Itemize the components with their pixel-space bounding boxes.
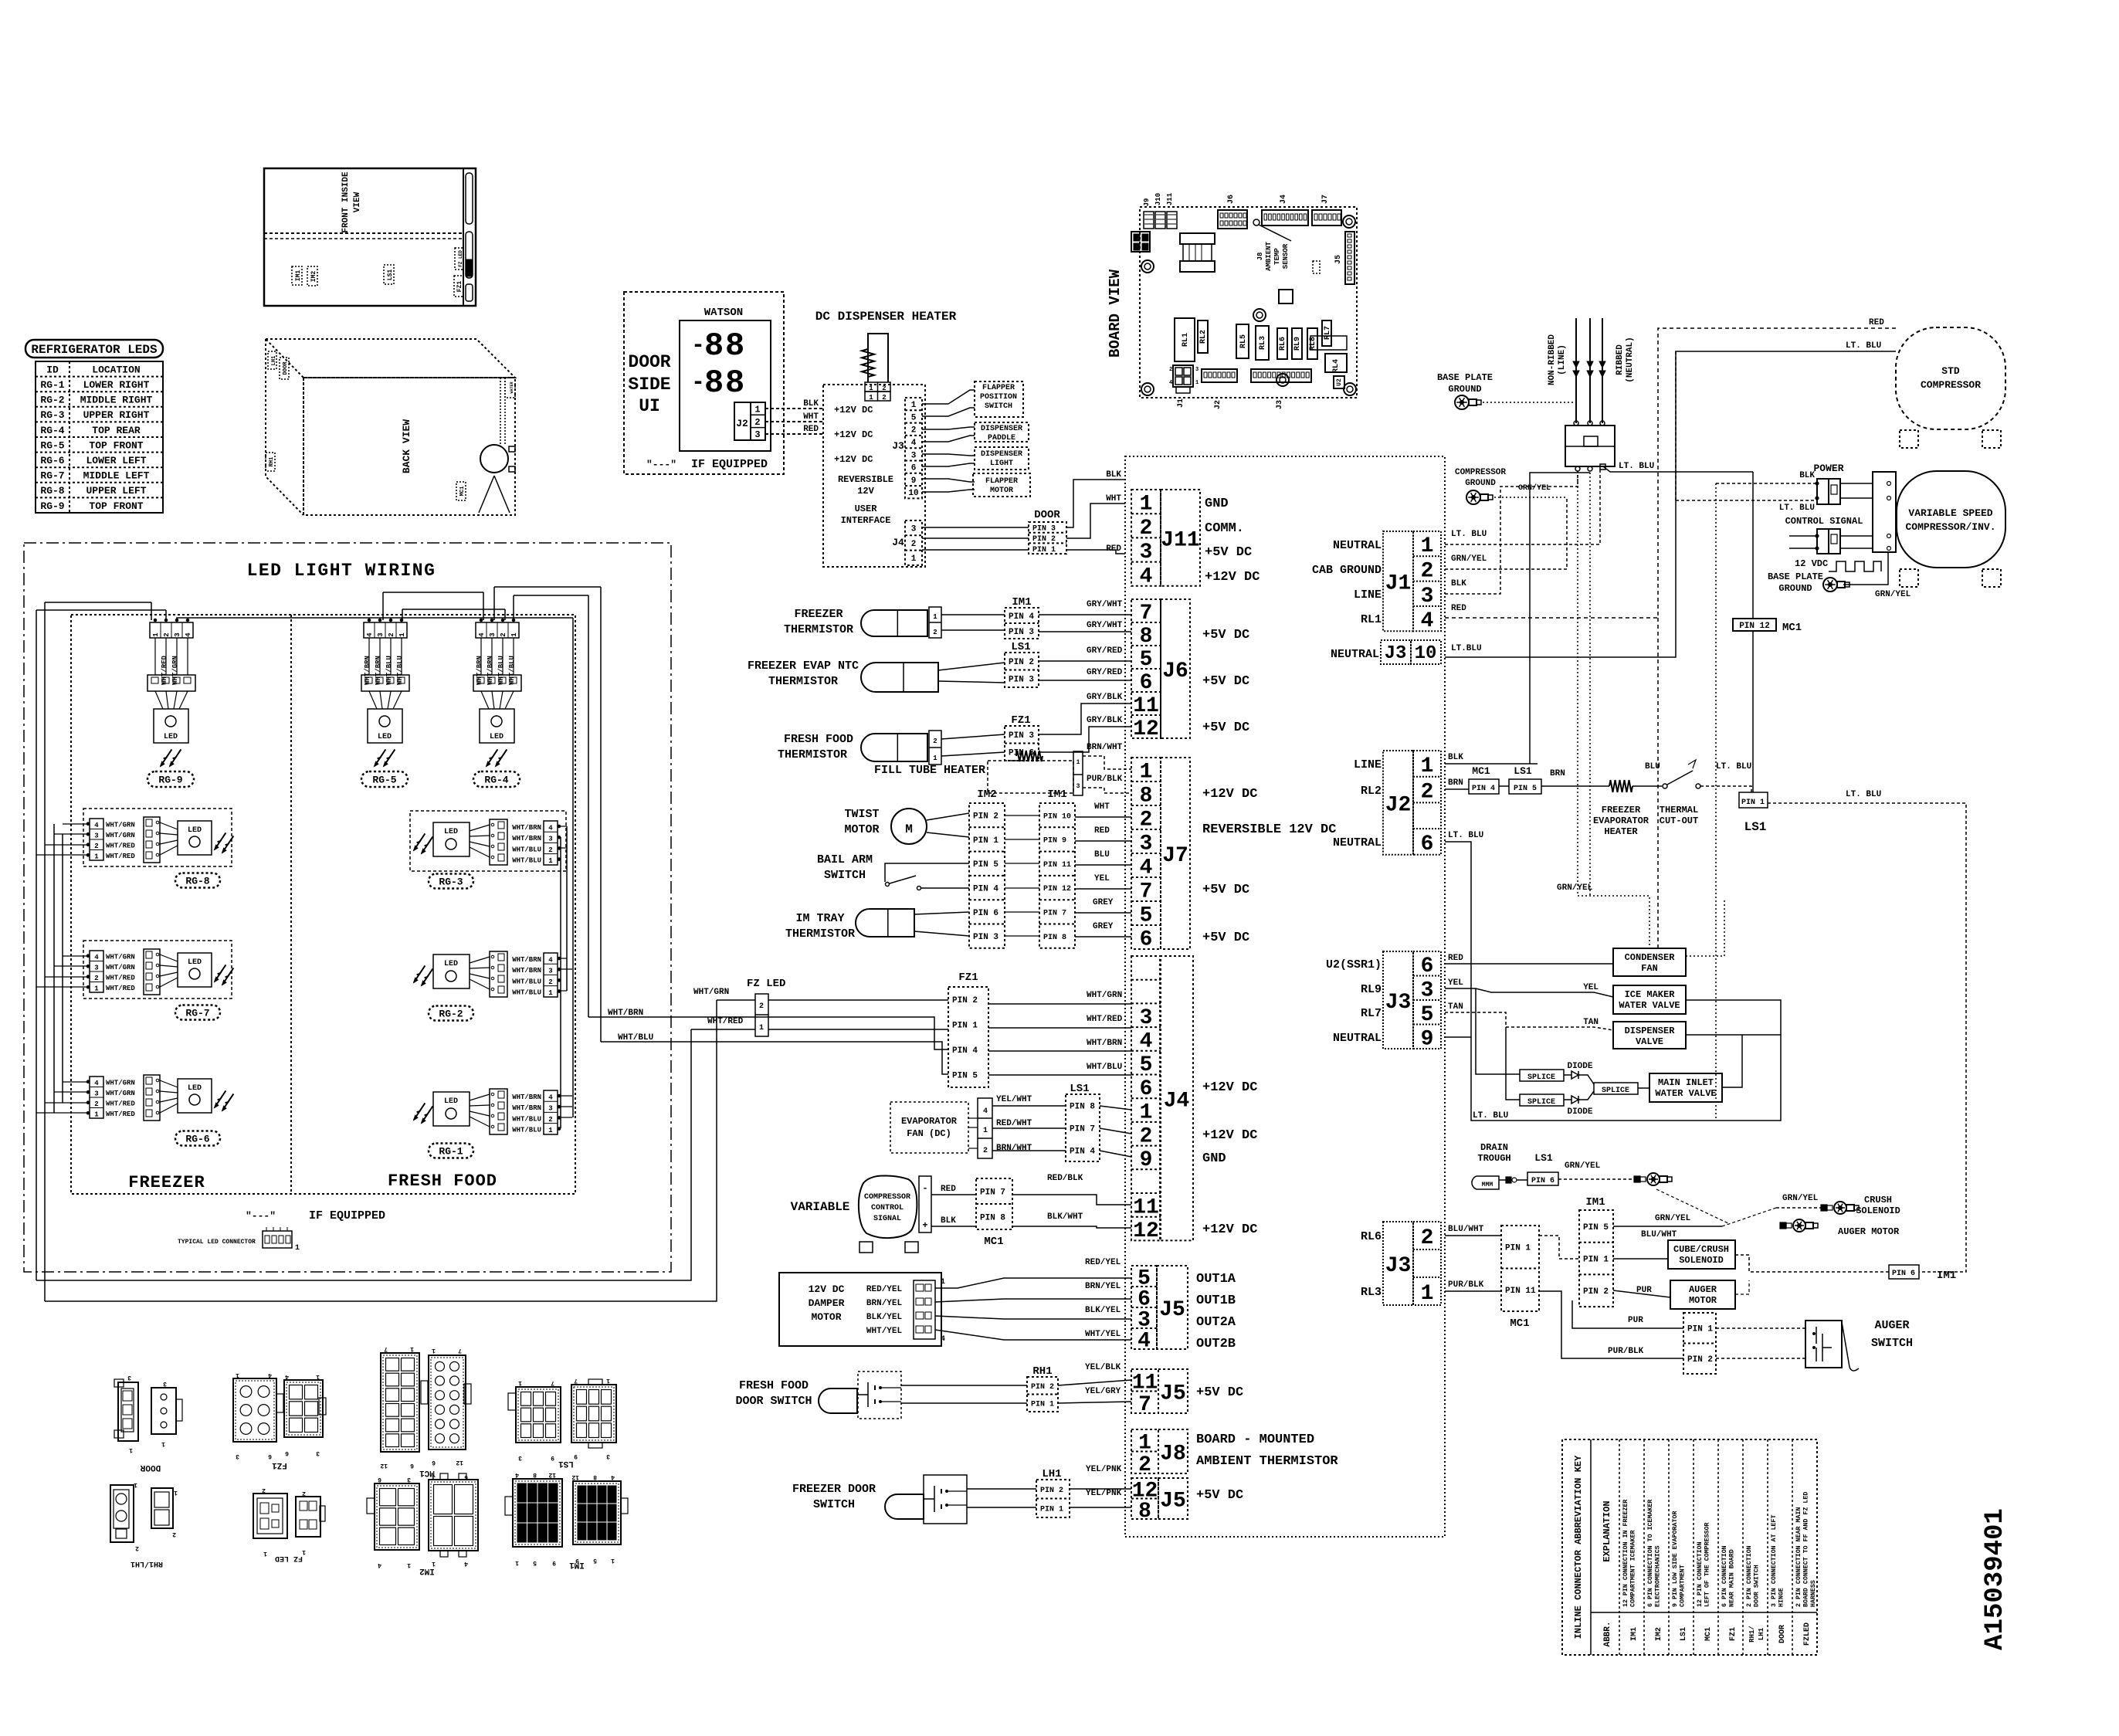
svg-text:LS1: LS1 — [558, 1459, 574, 1468]
LED module RG-1 tag — [429, 1144, 473, 1158]
LED module RG-2 lightning — [414, 974, 419, 982]
svg-text:1: 1 — [1421, 754, 1434, 778]
svg-text:BRN: BRN — [1448, 778, 1463, 788]
svg-text:SIDE: SIDE — [628, 375, 670, 395]
svg-text:IM2: IM2 — [977, 788, 996, 801]
svg-text:GRN/YEL: GRN/YEL — [1451, 554, 1487, 564]
svg-text:2: 2 — [933, 737, 937, 745]
svg-text:2: 2 — [302, 1490, 306, 1497]
12V DC damper motor — [779, 1273, 941, 1346]
svg-text:10: 10 — [908, 489, 918, 498]
freezer evaporator heater — [1609, 780, 1632, 792]
svg-text:IM TRAY: IM TRAY — [795, 912, 844, 925]
svg-text:1: 1 — [94, 985, 99, 993]
svg-text:1: 1 — [134, 1481, 137, 1488]
svg-text:CUT-OUT: CUT-OUT — [1660, 815, 1698, 826]
svg-text:RED/YEL: RED/YEL — [1085, 1258, 1121, 1267]
connector J6 — [1131, 599, 1161, 738]
svg-text:FZ1: FZ1 — [958, 971, 978, 984]
svg-text:LEFT OF THE COMPRESSOR: LEFT OF THE COMPRESSOR — [1704, 1522, 1711, 1607]
svg-text:WHT/BLU: WHT/BLU — [512, 978, 541, 985]
connector tag MC1 back view — [456, 482, 466, 500]
svg-text:PIN 1: PIN 1 — [1583, 1256, 1609, 1265]
flapper position switch — [975, 381, 1023, 417]
svg-text:MC1: MC1 — [1704, 1627, 1713, 1641]
wires FZ LED to FZ1 — [768, 999, 948, 1001]
IC U chip — [1279, 290, 1293, 303]
svg-text:J7: J7 — [1162, 844, 1188, 868]
svg-text:LED: LED — [378, 733, 392, 741]
svg-text:WHT/RED: WHT/RED — [106, 1100, 135, 1108]
svg-text:1: 1 — [911, 401, 917, 410]
svg-text:RG-1: RG-1 — [40, 379, 64, 391]
svg-text:J3: J3 — [1385, 991, 1412, 1015]
svg-text:LS1: LS1 — [1070, 1083, 1089, 1095]
svg-text:PIN 4: PIN 4 — [973, 885, 998, 894]
connector J3 SSR — [1413, 951, 1441, 1049]
svg-text:RH1: RH1 — [269, 457, 275, 467]
svg-text:YEL/GRY: YEL/GRY — [1085, 1387, 1121, 1396]
svg-text:COMPRESSOR: COMPRESSOR — [864, 1193, 910, 1202]
svg-text:FAN (DC): FAN (DC) — [907, 1128, 951, 1139]
svg-text:SOLENOID: SOLENOID — [1679, 1255, 1724, 1266]
connector face FZ LED — [253, 1494, 287, 1538]
svg-text:A15039401: A15039401 — [1981, 1508, 2010, 1650]
svg-text:M: M — [905, 822, 913, 836]
connector tag IM2 front view — [307, 266, 317, 286]
svg-text:J10: J10 — [1154, 193, 1162, 205]
svg-text:VARIABLE SPEED: VARIABLE SPEED — [1908, 507, 1992, 519]
svg-text:WHT/RED: WHT/RED — [106, 1110, 135, 1118]
svg-text:UPPER LEFT: UPPER LEFT — [86, 485, 146, 497]
svg-text:-: - — [922, 1183, 927, 1194]
relay RL1 — [1175, 318, 1195, 361]
svg-text:8: 8 — [704, 327, 724, 364]
svg-text:1: 1 — [161, 1440, 165, 1447]
svg-text:2: 2 — [759, 1002, 764, 1011]
svg-text:6: 6 — [268, 1453, 272, 1460]
svg-text:RH1/LH1: RH1/LH1 — [131, 1559, 163, 1568]
svg-text:WHT/BRN: WHT/BRN — [512, 967, 541, 975]
component U2 — [1334, 376, 1344, 388]
svg-text:SWITCH: SWITCH — [985, 402, 1012, 411]
svg-text:BLU/WHT: BLU/WHT — [1641, 1230, 1677, 1239]
svg-text:LED: LED — [188, 1084, 202, 1093]
svg-text:WHT/BRN: WHT/BRN — [1087, 1039, 1122, 1048]
svg-text:PIN 4: PIN 4 — [1009, 612, 1034, 622]
svg-text:COMPARTMENT ICEMAKER: COMPARTMENT ICEMAKER — [1630, 1530, 1637, 1607]
svg-text:PIN 2: PIN 2 — [1031, 1383, 1054, 1392]
svg-text:12: 12 — [380, 1462, 388, 1469]
svg-text:GRY/BLK: GRY/BLK — [1087, 716, 1123, 725]
svg-text:6: 6 — [410, 1462, 414, 1469]
svg-text:1: 1 — [316, 1373, 320, 1380]
svg-text:LOWER LEFT: LOWER LEFT — [86, 455, 146, 466]
svg-text:BAIL ARM: BAIL ARM — [817, 853, 873, 866]
svg-text:+12V DC: +12V DC — [834, 405, 873, 415]
svg-text:WHT/YEL: WHT/YEL — [1085, 1330, 1121, 1339]
svg-text:PIN 6: PIN 6 — [1531, 1177, 1554, 1185]
wire dashed down to condenser fan — [1657, 618, 1659, 948]
svg-text:1: 1 — [432, 1347, 436, 1354]
svg-text:POWER: POWER — [1813, 463, 1843, 474]
svg-text:LT. BLU: LT. BLU — [1619, 462, 1654, 471]
svg-text:WHT/GRN: WHT/GRN — [106, 1080, 135, 1087]
svg-text:DIODE: DIODE — [1567, 1062, 1592, 1071]
svg-text:J6: J6 — [1227, 195, 1236, 204]
svg-text:IF EQUIPPED: IF EQUIPPED — [691, 458, 768, 471]
flapper motor — [973, 473, 1030, 497]
svg-text:WATSON: WATSON — [704, 307, 743, 319]
connector tag DOOR back view — [280, 358, 289, 379]
diode 1 — [1564, 1074, 1571, 1076]
svg-text:RIBBED: RIBBED — [1616, 344, 1625, 375]
svg-text:PIN 5: PIN 5 — [973, 860, 998, 870]
connector J3 lower — [1413, 1222, 1441, 1305]
refrigerator LEDs table — [36, 361, 163, 513]
auger switch pins — [1683, 1313, 1716, 1374]
LED module RG-2 mid connector — [490, 951, 507, 997]
connector face IM2 — [375, 1483, 419, 1550]
svg-text:UI: UI — [639, 396, 660, 416]
svg-text:4: 4 — [464, 1560, 468, 1567]
svg-text:WHT: WHT — [803, 412, 819, 422]
svg-text:J5: J5 — [1334, 255, 1343, 264]
svg-text:PIN 1: PIN 1 — [1040, 1505, 1063, 1514]
svg-text:NEUTRAL: NEUTRAL — [1333, 539, 1382, 552]
svg-text:3: 3 — [236, 1453, 239, 1460]
svg-text:4: 4 — [1169, 380, 1172, 386]
LED module RG-8 tag — [175, 873, 220, 888]
svg-text:LT. BLU: LT. BLU — [1846, 790, 1881, 799]
svg-text:RG-9: RG-9 — [158, 775, 182, 786]
svg-text:TWIST: TWIST — [844, 808, 879, 821]
svg-text:RL9: RL9 — [1361, 983, 1382, 996]
dispenser paddle — [975, 422, 1029, 442]
svg-text:5: 5 — [593, 1557, 597, 1564]
svg-text:PIN 7: PIN 7 — [1043, 909, 1066, 917]
svg-text:3: 3 — [94, 1090, 98, 1098]
svg-text:+5V DC: +5V DC — [1202, 628, 1249, 643]
svg-text:WHT/BRN: WHT/BRN — [512, 956, 541, 964]
svg-text:PIN 1: PIN 1 — [1032, 546, 1056, 554]
svg-text:BLK: BLK — [803, 399, 819, 409]
svg-text:BLK: BLK — [1799, 471, 1815, 480]
svg-text:4: 4 — [548, 957, 553, 965]
svg-text:1: 1 — [911, 554, 917, 564]
svg-text:GRY/RED: GRY/RED — [1087, 668, 1123, 677]
relay RL4 — [1325, 354, 1347, 372]
LED module RG-3 lightning — [414, 842, 419, 850]
svg-text:FREEZER: FREEZER — [1602, 805, 1641, 815]
svg-text:1: 1 — [410, 1345, 414, 1352]
svg-text:6 PIN CONNECTION TO ICEMAKER: 6 PIN CONNECTION TO ICEMAKER — [1647, 1500, 1654, 1607]
svg-text:WHT/YEL: WHT/YEL — [866, 1327, 903, 1336]
svg-text:LED: LED — [444, 960, 458, 968]
svg-text:1: 1 — [933, 613, 937, 621]
svg-text:GRN/YEL: GRN/YEL — [1557, 883, 1593, 893]
svg-text:9: 9 — [574, 1453, 578, 1460]
svg-text:4: 4 — [1137, 1330, 1151, 1354]
svg-text:RG-1: RG-1 — [439, 1146, 463, 1158]
svg-text:IM2: IM2 — [419, 1566, 435, 1575]
connector J2 door UI — [734, 402, 765, 440]
connector face LS1 — [516, 1387, 561, 1443]
diode 2 — [1564, 1099, 1571, 1100]
svg-text:1: 1 — [398, 632, 406, 637]
svg-text:LT. BLU: LT. BLU — [1448, 831, 1483, 840]
connector tag WATER VALVE back view — [505, 378, 515, 398]
svg-text:J4: J4 — [1164, 1089, 1190, 1113]
dispenser light — [975, 447, 1029, 470]
svg-text:3: 3 — [911, 451, 917, 460]
svg-text:LS1: LS1 — [1680, 1627, 1688, 1641]
svg-text:BLU: BLU — [1094, 850, 1110, 860]
svg-text:COMPRESSOR: COMPRESSOR — [1455, 468, 1506, 477]
svg-text:WHT/RED: WHT/RED — [106, 843, 135, 850]
svg-text:1: 1 — [606, 1377, 610, 1384]
LED module RG-4 mid connector — [473, 675, 521, 691]
svg-text:RG-3: RG-3 — [40, 409, 64, 421]
svg-text:RG-4: RG-4 — [484, 775, 508, 786]
svg-text:YEL/PNK: YEL/PNK — [1086, 1489, 1122, 1498]
svg-text:BLK: BLK — [1448, 753, 1463, 762]
relay RL3 — [1256, 326, 1269, 360]
LED module RG-9 LED box — [154, 709, 188, 743]
svg-text:PIN 1: PIN 1 — [1505, 1244, 1531, 1253]
svg-text:TOP REAR: TOP REAR — [92, 425, 141, 436]
svg-text:+12V DC: +12V DC — [1202, 1080, 1257, 1095]
svg-text:2: 2 — [1140, 517, 1153, 541]
svg-text:PIN 8: PIN 8 — [1043, 934, 1066, 942]
svg-text:MIDDLE LEFT: MIDDLE LEFT — [83, 470, 150, 482]
svg-text:GND: GND — [1205, 497, 1229, 511]
svg-text:WHT/BRN: WHT/BRN — [608, 1009, 643, 1018]
svg-text:RG-2: RG-2 — [439, 1009, 463, 1020]
svg-text:PIN 2: PIN 2 — [1009, 658, 1034, 667]
svg-text:PIN 3: PIN 3 — [973, 933, 998, 942]
svg-text:RL3: RL3 — [1259, 336, 1267, 350]
svg-text:2: 2 — [548, 846, 552, 854]
svg-text:CAB GROUND: CAB GROUND — [1312, 564, 1382, 577]
wire PIN12 column — [1752, 472, 1754, 619]
svg-text:3: 3 — [127, 1374, 131, 1381]
svg-text:EVAPORATOR: EVAPORATOR — [901, 1116, 958, 1127]
svg-text:CUBE/CRUSH: CUBE/CRUSH — [1673, 1244, 1729, 1255]
svg-text:WHT/BRN: WHT/BRN — [512, 824, 541, 832]
svg-text:GND: GND — [1202, 1151, 1226, 1166]
wires LS1 to J4 — [1100, 1106, 1131, 1110]
svg-text:3: 3 — [94, 832, 98, 840]
svg-text:3: 3 — [377, 632, 385, 636]
LED module RG-1 lightning — [414, 1111, 419, 1120]
connector J1 board — [1173, 365, 1193, 387]
svg-text:OUT1A: OUT1A — [1196, 1272, 1236, 1287]
svg-text:FRESH FOOD: FRESH FOOD — [739, 1379, 809, 1392]
svg-text:ID: ID — [46, 364, 59, 375]
svg-text:DOOR: DOOR — [1778, 1625, 1787, 1643]
wire BLK to POWER — [1716, 483, 1817, 484]
wire J4 pin1 to DOOR PIN1 — [922, 549, 1029, 551]
svg-text:12V DC: 12V DC — [809, 1283, 845, 1295]
svg-text:SWITCH: SWITCH — [813, 1498, 855, 1511]
svg-text:GRN/YEL: GRN/YEL — [1875, 590, 1911, 599]
svg-text:AUGER MOTOR: AUGER MOTOR — [1838, 1226, 1900, 1237]
svg-text:2: 2 — [933, 629, 937, 636]
svg-text:2 PIN CONNECTION NEAR MAIN: 2 PIN CONNECTION NEAR MAIN — [1795, 1507, 1802, 1607]
wire J3-9 to LT.BLU bus — [1445, 1036, 1471, 1038]
svg-text:AMBIENT: AMBIENT — [1265, 242, 1273, 271]
user interface box — [823, 385, 925, 567]
LED module RG-8 lightning — [215, 841, 220, 849]
svg-text:4: 4 — [366, 632, 374, 637]
svg-text:WHT/GRN: WHT/GRN — [106, 1090, 135, 1097]
svg-text:FLAPPER: FLAPPER — [982, 384, 1015, 392]
LED module RG-1 mid connector — [490, 1089, 507, 1134]
connector tag LH1 back view — [268, 351, 276, 369]
svg-text:MOTOR: MOTOR — [844, 823, 879, 836]
svg-text:J11: J11 — [1161, 528, 1199, 552]
svg-text:YEL/BLK: YEL/BLK — [1085, 1363, 1121, 1372]
svg-text:PIN 11: PIN 11 — [1505, 1287, 1536, 1296]
svg-text:6: 6 — [464, 1473, 468, 1480]
svg-text:-: - — [691, 370, 705, 396]
svg-text:DOOR: DOOR — [628, 352, 670, 372]
svg-text:GRY/BLK: GRY/BLK — [1087, 693, 1123, 702]
LED module RG-8 mid connector — [144, 817, 160, 863]
svg-text:BOARD - MOUNTED: BOARD - MOUNTED — [1196, 1433, 1314, 1447]
splice 2 — [1520, 1094, 1564, 1106]
connector tag FZ LED front view — [455, 248, 463, 270]
LED module RG-6 LED box — [178, 1079, 212, 1113]
relay RL5 — [1236, 324, 1249, 358]
svg-text:CONTROL: CONTROL — [871, 1204, 904, 1212]
svg-text:DOOR: DOOR — [140, 1463, 161, 1472]
LED module RG-9 pin connector — [150, 622, 193, 638]
svg-text:12 PIN CONNECTION: 12 PIN CONNECTION — [1697, 1541, 1704, 1607]
svg-text:RG-6: RG-6 — [40, 455, 64, 466]
svg-text:BLK: BLK — [1451, 579, 1466, 588]
svg-text:2: 2 — [1140, 809, 1153, 832]
connector J6 board — [1218, 210, 1247, 229]
svg-text:5: 5 — [1140, 904, 1153, 928]
LED module RG-6 lightning — [215, 1099, 220, 1107]
svg-text:WHT/BRN: WHT/BRN — [512, 1104, 541, 1112]
svg-text:DC DISPENSER HEATER: DC DISPENSER HEATER — [815, 310, 957, 324]
svg-text:2: 2 — [163, 632, 171, 636]
svg-text:POSITION: POSITION — [980, 393, 1017, 402]
main control board outline — [1125, 456, 1445, 1537]
svg-text:LED: LED — [490, 733, 503, 741]
svg-text:BRN/YEL: BRN/YEL — [866, 1299, 903, 1308]
connector face IM1 — [513, 1479, 562, 1547]
svg-text:+12V DC: +12V DC — [834, 429, 873, 440]
PIN 12 MC1 inline — [1733, 619, 1776, 631]
svg-text:11: 11 — [1132, 1371, 1158, 1395]
svg-text:LED: LED — [444, 1097, 458, 1106]
svg-text:2: 2 — [983, 1147, 988, 1155]
inline LS1 PIN 1 — [1739, 792, 1768, 808]
svg-text:SENSOR: SENSOR — [1282, 243, 1290, 269]
svg-text:AUGER: AUGER — [1689, 1284, 1717, 1295]
svg-text:3: 3 — [548, 968, 552, 975]
svg-text:TROUGH: TROUGH — [1477, 1153, 1510, 1164]
svg-text:RG-9: RG-9 — [40, 500, 64, 512]
LED module RG-2 tag — [429, 1006, 473, 1021]
svg-text:3: 3 — [489, 632, 497, 636]
svg-text:4: 4 — [1140, 856, 1153, 880]
svg-text:FREEZER: FREEZER — [128, 1173, 205, 1192]
LED light wiring outer enclosure — [24, 543, 671, 1272]
svg-text:RL9: RL9 — [1293, 337, 1302, 351]
svg-text:GRN/YEL: GRN/YEL — [1655, 1214, 1691, 1223]
connector J10 board — [1155, 212, 1165, 229]
svg-text:RL2: RL2 — [1361, 785, 1382, 798]
svg-text:LINE: LINE — [1354, 758, 1382, 771]
svg-text:GREY: GREY — [1093, 922, 1114, 931]
svg-text:J3: J3 — [892, 440, 904, 452]
svg-text:WHT/GRN: WHT/GRN — [106, 822, 135, 829]
svg-text:PUR/BLK: PUR/BLK — [1608, 1347, 1644, 1356]
svg-text:PIN 5: PIN 5 — [1514, 785, 1537, 793]
svg-text:STD: STD — [1941, 365, 1960, 377]
svg-text:SPLICE: SPLICE — [1527, 1098, 1555, 1107]
svg-text:6: 6 — [1140, 928, 1153, 952]
LED module RG-2 LED box — [433, 954, 470, 988]
svg-text:PIN 6: PIN 6 — [1892, 1270, 1915, 1278]
svg-text:1: 1 — [94, 1111, 99, 1119]
wire J4 pin3 to DOOR PIN3 — [922, 527, 1029, 528]
connector J4 — [1131, 956, 1161, 1240]
connector J5 board — [1345, 232, 1354, 284]
svg-text:PIN 12: PIN 12 — [1043, 885, 1071, 893]
svg-text:LS1: LS1 — [387, 270, 394, 281]
svg-text:THERMISTOR: THERMISTOR — [778, 748, 847, 761]
svg-text:MC1: MC1 — [984, 1236, 1003, 1248]
svg-text:RG-7: RG-7 — [185, 1008, 209, 1019]
svg-text:1: 1 — [236, 1372, 239, 1378]
connector J2 main — [1413, 751, 1441, 855]
main PCB outline — [1140, 207, 1357, 398]
svg-text:WHT: WHT — [1106, 494, 1121, 504]
svg-text:DRAIN: DRAIN — [1480, 1142, 1508, 1153]
svg-text:LT.BLU: LT.BLU — [1451, 644, 1482, 653]
svg-text:RED: RED — [1451, 604, 1466, 613]
svg-text:LT. BLU: LT. BLU — [1716, 762, 1751, 771]
svg-text:SWITCH: SWITCH — [1871, 1337, 1913, 1350]
wires power connector to inverter — [1840, 483, 1873, 484]
svg-text:1: 1 — [174, 1489, 178, 1496]
svg-text:4: 4 — [268, 1372, 272, 1378]
svg-text:FZ1: FZ1 — [1729, 1627, 1738, 1641]
svg-text:J9: J9 — [1143, 198, 1151, 207]
svg-text:4: 4 — [515, 1471, 519, 1478]
inline LS1 PIN 6 — [1527, 1172, 1558, 1185]
svg-text:FRESH FOOD: FRESH FOOD — [388, 1171, 497, 1191]
svg-text:12 VDC: 12 VDC — [1795, 558, 1828, 569]
LED module RG-7 mid connector — [144, 949, 160, 995]
svg-text:WHT/BLU: WHT/BLU — [512, 857, 541, 865]
svg-text:1: 1 — [759, 1024, 764, 1032]
svg-text:2: 2 — [135, 1544, 139, 1551]
svg-text:IM1: IM1 — [569, 1560, 585, 1569]
svg-text:WHT/GRN: WHT/GRN — [1087, 991, 1122, 1000]
inline connector abbreviation key table — [1562, 1439, 1817, 1655]
svg-text:GROUND: GROUND — [1465, 479, 1496, 488]
svg-text:1: 1 — [548, 857, 553, 865]
svg-text:LS1: LS1 — [1534, 1152, 1553, 1164]
connector J2 board — [1202, 369, 1237, 382]
